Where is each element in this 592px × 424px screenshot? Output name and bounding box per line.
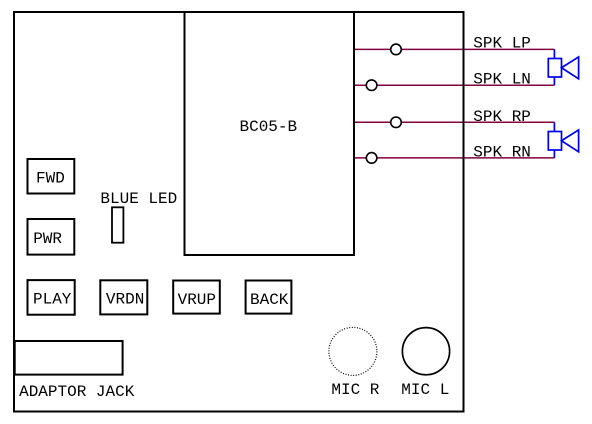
svg-text:SPK LN: SPK LN — [473, 71, 531, 89]
svg-text:PLAY: PLAY — [33, 290, 72, 308]
svg-text:SPK LP: SPK LP — [473, 34, 531, 52]
svg-text:ADAPTOR JACK: ADAPTOR JACK — [19, 383, 135, 401]
svg-text:BLUE LED: BLUE LED — [100, 190, 177, 208]
svg-text:VRUP: VRUP — [178, 291, 216, 309]
svg-text:MIC L: MIC L — [401, 381, 449, 399]
svg-text:SPK RN: SPK RN — [473, 143, 531, 161]
svg-text:MIC R: MIC R — [331, 381, 379, 399]
svg-text:VRDN: VRDN — [106, 290, 144, 308]
svg-text:BC05-B: BC05-B — [240, 118, 298, 136]
svg-text:BACK: BACK — [250, 291, 289, 309]
svg-text:PWR: PWR — [33, 230, 62, 248]
svg-text:SPK RP: SPK RP — [473, 108, 531, 126]
svg-text:FWD: FWD — [36, 169, 65, 187]
